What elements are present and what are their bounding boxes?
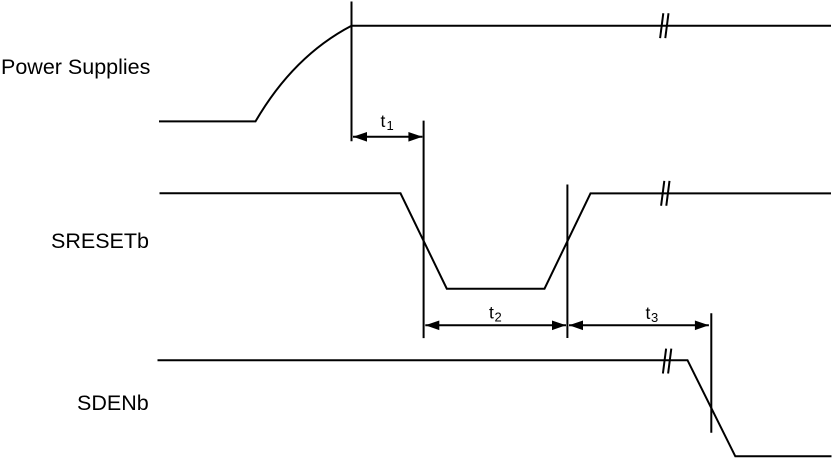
svg-text:SDENb: SDENb [77, 391, 149, 415]
svg-text:Power Supplies: Power Supplies [1, 55, 150, 79]
svg-text:t: t [489, 303, 494, 323]
svg-text:t: t [646, 303, 651, 323]
svg-text:2: 2 [495, 310, 502, 325]
svg-text:1: 1 [387, 118, 394, 133]
svg-text:SRESETb: SRESETb [51, 229, 149, 253]
svg-text:t: t [381, 111, 386, 131]
svg-text:3: 3 [651, 310, 658, 325]
